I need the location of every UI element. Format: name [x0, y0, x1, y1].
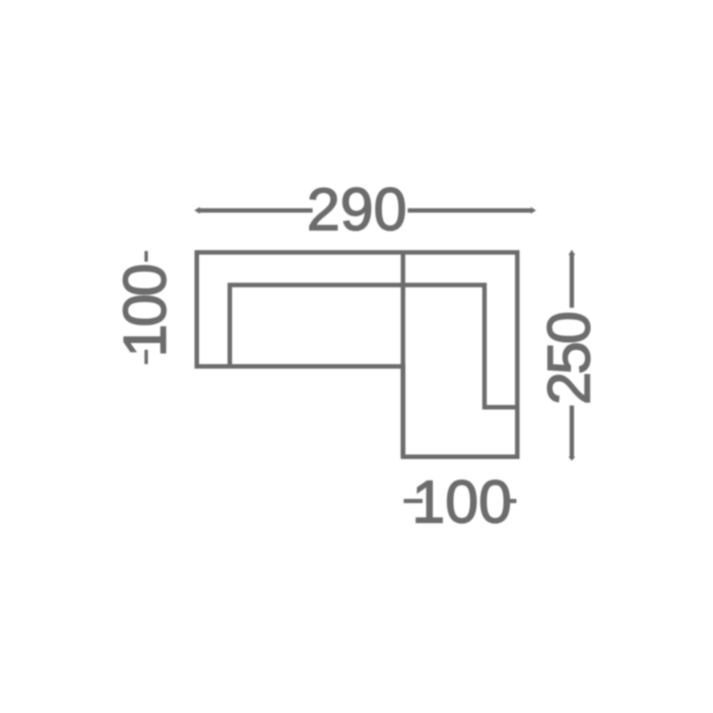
left dimension tick bottom: [145, 350, 148, 364]
svg-text:100: 100: [112, 265, 179, 358]
sofa inner seat line: [230, 285, 518, 407]
label 100 left: serif foot of digit 1: [160, 329, 165, 348]
sofa section divider: [401, 252, 406, 456]
svg-text:250: 250: [535, 312, 602, 405]
top dimension line right segment: [408, 207, 536, 214]
top dimension line left segment: [194, 207, 312, 214]
bottom dimension tick right: [506, 499, 516, 503]
bottom dimension tick left: [404, 499, 423, 503]
svg-text:290: 290: [307, 176, 407, 243]
svg-text:100: 100: [412, 469, 512, 536]
right dimension line upper segment: [568, 250, 575, 308]
label 100 bottom: serif foot of digit 1: [423, 518, 442, 523]
right dimension line lower segment: [568, 406, 575, 461]
sofa outer outline: [197, 252, 518, 456]
left dimension tick top: [145, 251, 148, 262]
